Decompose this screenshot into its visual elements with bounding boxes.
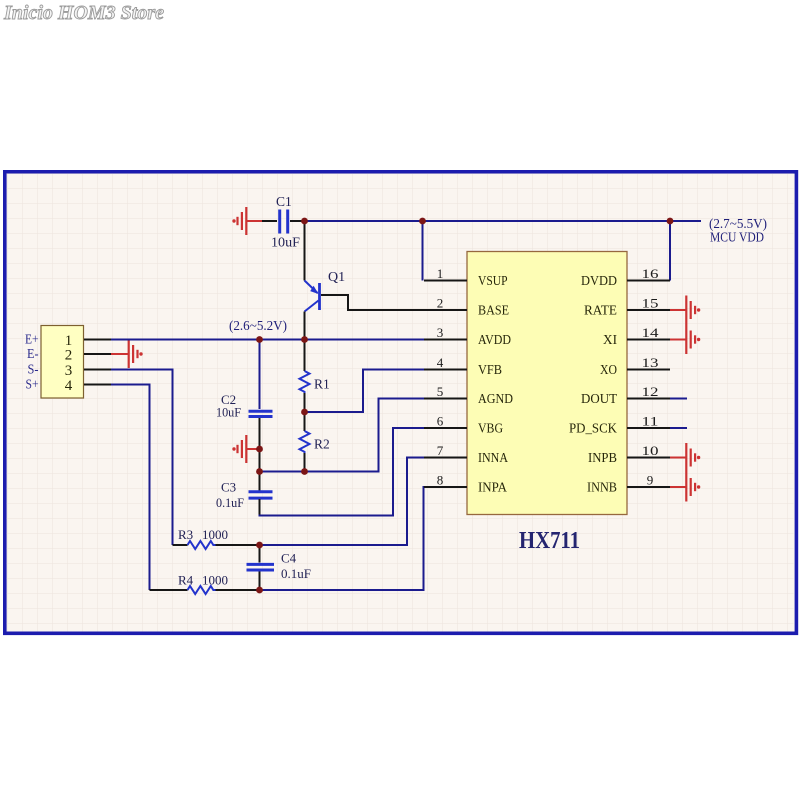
wire R3 to pin 7 INNA [260,458,425,546]
svg-text:10uF: 10uF [216,405,241,420]
pin 10 INPB stub [627,457,670,459]
svg-text:13: 13 [642,355,659,370]
svg-text:12: 12 [642,384,659,399]
connector J1 body [41,326,84,399]
svg-text:VSUP: VSUP [478,274,508,289]
wire rail to pin 1 [422,221,424,281]
svg-text:3: 3 [437,325,444,340]
pin 7 INNA stub [424,457,467,459]
wire rail to pin 16 [669,221,671,281]
svg-text:Q1: Q1 [328,270,345,285]
svg-text:VFB: VFB [478,363,502,378]
svg-text:S+: S+ [26,378,39,393]
pin 5 AGND stub [424,398,467,400]
resistor R2 [300,412,310,472]
svg-text:1: 1 [437,266,444,281]
ground at connector pin 2 [111,340,143,368]
svg-text:0.1uF: 0.1uF [281,566,311,581]
junction R4 / C4 bottom [256,587,263,594]
pin 3 AVDD stub [424,339,467,341]
junction rail / pin 1 [419,218,426,225]
capacitor C3 [249,492,273,498]
pin 8 INPA stub [424,486,467,488]
junction R3 / C4 top [256,542,263,549]
ground at C2/C3 node [232,435,259,463]
svg-text:RATE: RATE [584,304,617,319]
svg-text:2: 2 [437,296,444,311]
svg-text:AVDD: AVDD [478,333,511,348]
pin 14 XI stub [627,339,670,341]
svg-text:C4: C4 [281,551,297,566]
junction AVDD rail / C2 [256,336,263,343]
wire C3 bottom to pin 6 VBG [259,499,261,515]
svg-text:(2.6~5.2V): (2.6~5.2V) [229,318,287,333]
svg-text:S-: S- [28,363,39,378]
svg-text:9: 9 [647,473,654,488]
svg-text:15: 15 [642,296,659,311]
ground at pin 10 INPB [670,443,700,473]
wire GND node to pin 5 AGND [260,399,425,472]
svg-text:INNB: INNB [587,481,617,496]
svg-text:10uF: 10uF [271,235,301,250]
svg-text:10: 10 [642,443,659,458]
junction AGND net / R2 [301,468,308,475]
svg-text:INPB: INPB [588,451,617,466]
svg-text:BASE: BASE [478,304,509,319]
svg-text:DVDD: DVDD [581,274,617,289]
pin 1 VSUP stub [424,280,467,282]
svg-text:0.1uF: 0.1uF [216,495,244,510]
svg-text:11: 11 [642,414,659,429]
pin 9 INNB stub [627,486,670,488]
pin 13 XO stub [627,369,670,371]
svg-text:PD_SCK: PD_SCK [569,422,617,437]
svg-text:C1: C1 [276,194,292,209]
wire C2 to C3 [259,418,261,491]
svg-text:XI: XI [603,333,617,348]
svg-text:R3: R3 [178,527,193,542]
svg-text:HX711: HX711 [519,528,580,554]
wire AVDD rail down through C2 [259,340,261,410]
svg-text:1000: 1000 [202,527,228,542]
svg-text:VBG: VBG [478,422,503,437]
svg-text:7: 7 [437,443,444,458]
svg-text:INNA: INNA [478,451,509,466]
svg-text:R2: R2 [314,437,330,452]
capacitor C4 [247,545,275,590]
svg-text:INPA: INPA [478,481,508,496]
top VSUP rail wire [305,220,702,222]
pin 11 PD_SCK stub [627,427,670,429]
capacitor C1 [262,210,305,234]
svg-text:AGND: AGND [478,392,513,407]
svg-text:MCU VDD: MCU VDD [710,230,764,245]
svg-text:4: 4 [437,355,444,370]
pin 16 DVDD stub [627,280,670,282]
junction AVDD rail / Q1 collector [301,336,308,343]
svg-text:E+: E+ [25,333,39,348]
svg-text:5: 5 [437,384,444,399]
wire Q1 base to pin 2 [321,295,424,310]
resistor R1 [300,340,310,412]
resistor R4 [150,586,260,594]
connector pin 1 stub [84,339,111,341]
ground at pin 15 RATE [670,296,700,326]
svg-text:R4: R4 [178,573,194,588]
svg-text:DOUT: DOUT [581,392,617,407]
svg-text:8: 8 [437,473,444,488]
svg-text:14: 14 [642,325,660,340]
svg-text:4: 4 [65,378,73,394]
junction AGND net left [256,468,263,475]
watermark [4,2,164,25]
pin 6 VBG stub [424,427,467,429]
pin 12 DOUT stub [627,398,670,400]
pin 4 VFB stub [424,369,467,371]
wire R4 to pin 8 INPA [260,487,425,590]
ground at pin 9 INNB [670,473,700,502]
pin 15 RATE stub [627,309,670,311]
svg-text:16: 16 [642,266,660,281]
svg-text:R1: R1 [314,377,330,392]
svg-text:3: 3 [65,363,73,379]
connector pin 3 stub [84,369,111,371]
connector pin 2 stub [84,353,111,355]
transistor Q1 [305,222,320,340]
wire at pin 11 PD_SCK [670,427,687,429]
ground at capacitor C1 [232,207,262,235]
junction C2-C3 / ground [256,446,263,453]
capacitor C2 [249,411,273,416]
svg-text:E-: E- [27,347,39,362]
svg-text:XO: XO [600,363,617,378]
wire R1/R2 node to pin 4 VFB [305,370,425,413]
svg-text:6: 6 [437,414,444,429]
junction R1-R2 / VFB [301,409,308,416]
svg-text:C3: C3 [221,480,236,495]
junction C1 / Q1 emitter [301,218,308,225]
pin 2 BASE stub [424,309,467,311]
connector pin 4 stub [84,384,111,386]
svg-text:2: 2 [65,347,73,363]
junction rail / pin 16 [667,218,674,225]
IC U1 HX711 body [467,252,627,515]
schematic frame [5,172,797,634]
ground at pin 14 XI [670,325,700,354]
wire E+ to AVDD rail [111,339,424,341]
svg-text:1000: 1000 [202,573,228,588]
wire S- down to R3 [111,370,173,546]
wire at pin 12 DOUT [670,398,687,400]
resistor R3 [173,541,260,549]
wire S+ down to R4 [111,385,150,591]
